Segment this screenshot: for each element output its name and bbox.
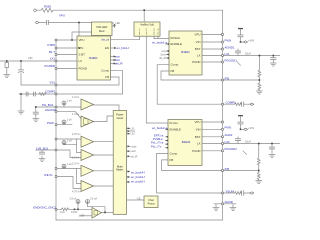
wire op5 input row: [56, 168, 81, 170]
svg-text:VPU: VPU: [79, 38, 85, 42]
svg-text:10uH: 10uH: [245, 141, 251, 144]
wire IC2 decoupling: [241, 29, 244, 42]
connector pin VPU: [36, 21, 39, 24]
resistor R3 1k: [62, 208, 69, 211]
svg-text:R393: R393: [44, 5, 51, 9]
ground: [256, 181, 262, 184]
capacitor C12 lx2: [269, 147, 274, 149]
svg-text:1.0 V+: 1.0 V+: [72, 113, 80, 116]
svg-text:PGW: PGW: [47, 121, 54, 125]
buck IC U1: [77, 36, 111, 80]
svg-text:COMP1: COMP1: [226, 101, 237, 105]
svg-text:VIN: VIN: [196, 40, 201, 44]
wire op3 out: [94, 141, 114, 143]
capacitor C2 bulk: [18, 70, 23, 73]
resistor R2 comp: [39, 93, 46, 96]
svg-text:/FB: /FB: [225, 167, 230, 171]
capacitor C10 decouple U3: [238, 122, 243, 124]
connector pin R1: [34, 9, 37, 12]
svg-text:0.61V: 0.61V: [71, 211, 78, 214]
wire bottom rail: [56, 219, 223, 221]
svg-text:Good: Good: [117, 116, 124, 120]
current source I7: [76, 200, 80, 204]
svg-text:LX: LX: [79, 59, 83, 63]
svg-text:AGND1: AGND1: [225, 45, 235, 49]
svg-text:FB: FB: [105, 75, 109, 79]
wire LX2 ext: [223, 143, 281, 145]
svg-text:+VIN: +VIN: [248, 39, 254, 43]
wire bulk cap branch: [21, 61, 56, 85]
wire IC3 bootstrap: [237, 137, 239, 144]
svg-text:U_LED: U_LED: [113, 22, 121, 25]
svg-text:4.70 V+: 4.70 V+: [72, 133, 81, 136]
svg-text:en_buck2-f: en_buck2-f: [131, 175, 145, 179]
wire op4 out: [94, 154, 114, 156]
svg-text:1.0 V+: 1.0 V+: [72, 96, 80, 99]
diamond VIN1: [244, 41, 248, 43]
current source I5: [62, 164, 66, 168]
capacitor C11 bst2: [235, 139, 240, 141]
ground: [230, 208, 236, 211]
wire right bus: [222, 10, 224, 220]
svg-text:mode: mode: [131, 145, 138, 148]
wire lx2 cap: [271, 144, 273, 155]
wire divider1: [258, 56, 260, 92]
svg-text:4.70 V+: 4.70 V+: [72, 191, 81, 194]
svg-text:BST: BST: [195, 47, 201, 51]
current source I2: [62, 120, 66, 124]
svg-text:AGOOD: AGOOD: [45, 108, 56, 112]
svg-text:BST: BST: [195, 135, 201, 139]
svg-text:VIN: VIN: [196, 127, 201, 131]
svg-text:VSUM: VSUM: [226, 189, 235, 193]
wire VPU row: [39, 22, 92, 24]
wire IC1 pin VIN: [56, 47, 77, 49]
wire LX1 ext: [223, 55, 281, 57]
resistor R7 divider2 bottom: [257, 173, 260, 180]
svg-text:1.55V: 1.55V: [79, 214, 86, 217]
diamond VIN2: [244, 128, 248, 130]
wire opamp1 input row: [36, 107, 81, 119]
svg-text:LX1: LX1: [131, 128, 136, 130]
wire lx1 cap: [272, 56, 274, 64]
wire agnd row: [214, 204, 236, 208]
wire IC1 pin PGND: [56, 68, 77, 70]
svg-text:VPU: VPU: [59, 13, 65, 17]
svg-text:Comp: Comp: [171, 63, 179, 67]
ground: [213, 208, 219, 211]
buck IC U2: [169, 31, 202, 75]
resistor R5 divider bottom: [258, 83, 261, 90]
tvs diode D1: [5, 63, 9, 68]
wire op1 out to PG top: [94, 105, 120, 111]
wire IC2 mid label stubs: [167, 51, 170, 58]
wire IC2 bootstrap: [237, 49, 239, 56]
svg-text:VS1: VS1: [50, 81, 56, 85]
current source I1: [62, 101, 66, 105]
wire cs5 stub: [63, 167, 65, 169]
wire IC1 fb loop: [56, 77, 119, 85]
svg-text:LX: LX: [197, 54, 201, 58]
wire left bus: [55, 40, 57, 220]
ground: [4, 75, 10, 78]
buck IC U3: [168, 120, 202, 166]
svg-text:IN ALL: IN ALL: [170, 121, 179, 125]
resistor R4 divider top: [258, 70, 261, 77]
wire vsum right: [223, 192, 250, 194]
current source I3: [62, 141, 66, 145]
capacitor C9 lx1: [271, 58, 276, 60]
svg-text:B4E02: B4E02: [181, 50, 190, 54]
capacitor C13 vsum series: [242, 191, 244, 195]
op-amp A6: [81, 181, 94, 192]
svg-text:del_/R: del_/R: [131, 155, 138, 158]
svg-text:PGND: PGND: [79, 67, 87, 71]
svg-text:en_bck1-f: en_bck1-f: [117, 46, 130, 50]
svg-text:Char: Char: [148, 198, 154, 202]
capacitor C8 bst1: [235, 51, 240, 53]
op-amp A3: [81, 136, 94, 147]
svg-text:del_/R: del_/R: [159, 57, 166, 60]
svg-text:LX: LX: [197, 142, 201, 146]
wire op5 out: [94, 170, 114, 172]
svg-text:en_buck4-f: en_buck4-f: [131, 170, 145, 174]
op-amp A4: [81, 150, 94, 161]
svg-text:PxL_/Tv: PxL_/Tv: [151, 144, 162, 148]
wire IC3 fb loop: [162, 160, 259, 171]
svg-text:4xxMxx Vdd: 4xxMxx Vdd: [140, 23, 154, 26]
capacitor C3 comp: [26, 92, 28, 96]
wire divider2: [258, 144, 260, 181]
ground: [18, 111, 24, 114]
wire cs3 stub: [64, 144, 77, 146]
wire IC3 comp loop: [157, 153, 223, 193]
resistor R6 divider2 top: [257, 158, 260, 165]
svg-text:Pump: Pump: [148, 201, 155, 205]
svg-text:del_/R: del_/R: [115, 62, 123, 66]
svg-text:1.0 V+: 1.0 V+: [72, 157, 80, 160]
wire IC1 dis to connector pin1: [111, 36, 140, 40]
svg-text:en_buck1-a: en_buck1-a: [152, 41, 167, 45]
op-amp A7 comparator: [92, 208, 102, 219]
wire IC2 right pins: [202, 34, 223, 62]
svg-text:dis_ck: dis_ck: [102, 38, 110, 42]
ground: [39, 159, 45, 162]
svg-text:PGOOD1: PGOOD1: [225, 58, 238, 62]
svg-text:ENABLE: ENABLE: [171, 42, 182, 46]
svg-text:PGNDR: PGNDR: [45, 64, 55, 68]
wire IC1 pin VPU: [56, 39, 77, 41]
svg-text:FB: FB: [170, 158, 174, 162]
wire top rail: [37, 9, 223, 11]
wire ive row: [56, 177, 81, 189]
svg-text:3.5 uA: 3.5 uA: [90, 198, 97, 201]
svg-text:LX2: LX2: [225, 140, 231, 144]
wire LED pin2: [72, 32, 92, 40]
power flag VIN: [238, 28, 243, 29]
svg-text:2.0 V+: 2.0 V+: [72, 162, 80, 165]
svg-text:AGD2: AGD2: [225, 133, 233, 137]
svg-text:B1 T: B1 T: [49, 50, 55, 54]
svg-text:push: push: [131, 150, 137, 153]
wire IC3 right pins: [202, 122, 223, 151]
svg-text:COMP1: COMP1: [45, 90, 56, 94]
capacitor C5: [33, 112, 38, 114]
current source I8: [86, 200, 90, 204]
wire IC1 en stub: [111, 47, 115, 49]
wire pgood_b row: [56, 123, 72, 126]
ground: [33, 119, 39, 122]
wire VIN input rail: [0, 60, 77, 62]
wire IC1 mid label stubs: [111, 57, 115, 64]
wire agood row: [56, 111, 81, 118]
port squares right bus: [222, 34, 224, 36]
capacitor C14 comp1 series: [242, 102, 244, 106]
svg-text:PG_BU1: PG_BU1: [42, 103, 54, 107]
svg-text:AGND: AGND: [225, 200, 233, 204]
wire IC1 comp loop: [56, 71, 123, 94]
wire connector pin4 stub: [157, 36, 159, 38]
capacitor C1 series: [47, 20, 49, 24]
wire IC1 pin EN: [56, 54, 77, 56]
nc mark pgood2: [243, 151, 247, 155]
wire pair connect op3 op4: [77, 139, 82, 153]
svg-text:1 uA: 1 uA: [67, 118, 72, 121]
wire smallop plus input: [80, 215, 92, 217]
svg-text:Comp: Comp: [170, 151, 178, 155]
wire IC3 left label stubs: [166, 137, 169, 148]
resistor R8 vsum: [235, 192, 242, 195]
svg-text:FB: FB: [171, 69, 175, 73]
capacitor C7 decouple U2: [238, 35, 243, 37]
diamond VSUM: [250, 192, 254, 194]
wire IC2 fb loop: [161, 71, 259, 80]
svg-text:PGND: PGND: [192, 149, 200, 153]
wire IC3 en stub: [166, 128, 169, 130]
power good / mute matrix box: [113, 111, 126, 215]
svg-text:B4E03: B4E03: [182, 140, 191, 144]
LED box U4: [92, 22, 113, 36]
svg-text:1V8_BU1: 1V8_BU1: [36, 146, 49, 150]
wire IC2 en stub: [166, 43, 170, 45]
wire MM ce out: [127, 199, 145, 201]
junction dots: [78, 22, 80, 24]
svg-text:VPU: VPU: [195, 32, 201, 36]
svg-text:Matrix: Matrix: [116, 168, 124, 172]
wire cs8 loop: [88, 204, 106, 213]
svg-text:VIN: VIN: [28, 56, 32, 60]
svg-text:PVIN: PVIN: [225, 38, 232, 42]
pin arrows: [114, 47, 116, 49]
svg-text:/FB: /FB: [225, 76, 230, 80]
svg-text:-CE: -CE: [137, 197, 142, 200]
svg-text:GND/GNC_GNC1: GND/GNC_GNC1: [33, 206, 57, 210]
svg-text:LX1: LX1: [225, 52, 231, 56]
ground: [270, 63, 276, 66]
LED output arrow: [114, 24, 116, 27]
svg-text:SxA: SxA: [115, 58, 120, 62]
port squares left bus: [55, 39, 57, 41]
svg-text:1 uA: 1 uA: [67, 99, 72, 102]
svg-text:Red: Red: [99, 29, 105, 33]
wire gnd sense row: [56, 208, 92, 210]
resistor R9 comp1 tail: [235, 103, 242, 106]
svg-text:1 uA: 1 uA: [67, 139, 72, 142]
power flag VIN2: [238, 115, 243, 116]
svg-text:PVIN: PVIN: [225, 126, 232, 130]
wire cs1 stub: [63, 105, 65, 107]
wire connector pin2 long drop: [146, 36, 168, 123]
svg-text:10uH: 10uH: [245, 53, 251, 56]
wire IC3 decoupling: [241, 117, 244, 130]
op-amp A5: [81, 165, 94, 176]
svg-text:en_buck2-a: en_buck2-a: [152, 126, 167, 130]
wire pair connect op5 op6: [77, 169, 82, 184]
svg-text:VPU: VPU: [195, 120, 201, 124]
svg-text:1 kΩ: 1 kΩ: [60, 211, 65, 214]
svg-text:S BT: S BT: [79, 53, 86, 57]
wire connector pin3 to IC2: [154, 36, 169, 38]
wire connector drop: [143, 10, 145, 22]
ground: [269, 155, 275, 158]
wire IC2 comp loop: [157, 65, 250, 105]
svg-text:en_buck0-f: en_buck0-f: [131, 180, 145, 184]
nc mark pgood1: [237, 62, 241, 66]
ground: [256, 91, 262, 94]
op-amp A1: [81, 99, 94, 110]
svg-text:LX2: LX2: [131, 134, 136, 136]
wire op2 out to PG left: [94, 116, 114, 122]
wire tvs branch: [6, 61, 8, 75]
capacitor C4 comp2: [34, 92, 36, 96]
capacitor C6 p3v3: [39, 152, 44, 154]
wire comp network: [19, 94, 56, 111]
wire cs7 stub: [77, 204, 79, 210]
svg-text:Comp: Comp: [101, 69, 109, 73]
svg-text:IN/SAA: IN/SAA: [171, 36, 181, 40]
svg-text:EN: EN: [105, 46, 109, 50]
op-amp A2: [81, 116, 94, 127]
wire smallop out: [102, 211, 114, 213]
svg-text:2.5 uA: 2.5 uA: [70, 198, 77, 201]
wire VPU drop to VIN pin: [78, 23, 80, 49]
resistor R1: [41, 8, 53, 12]
svg-text:IVE IN: IVE IN: [44, 173, 52, 177]
thermal pad box U5: [144, 196, 158, 208]
svg-text:+VIN: +VIN: [248, 126, 254, 130]
svg-text:B4E01: B4E01: [89, 56, 98, 60]
svg-text:LX1: LX1: [50, 57, 56, 61]
wire p3v3 row: [36, 150, 81, 159]
connector J1: [134, 22, 160, 36]
wire op3 input row: [56, 138, 81, 140]
diamond comp1: [250, 103, 254, 105]
wire LED output stub: [112, 25, 115, 27]
wire MM right stubs: [127, 128, 130, 182]
svg-text:PGND: PGND: [192, 60, 200, 64]
svg-text:ENABLE: ENABLE: [170, 127, 181, 131]
svg-text:PGOOD2: PGOOD2: [225, 147, 238, 151]
wire op6 out: [94, 185, 114, 187]
svg-text:P-BW: P-BW: [47, 43, 55, 47]
